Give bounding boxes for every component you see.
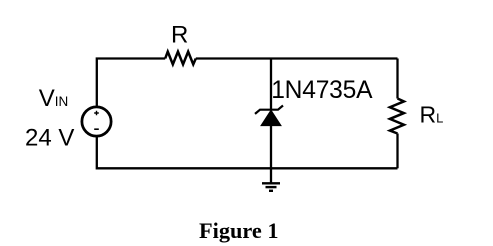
wire right upper segment: [396, 59, 398, 99]
svg-text:Figure 1: Figure 1: [199, 218, 278, 243]
wire middle branch upper: [270, 59, 272, 111]
wire right lower segment: [396, 134, 398, 169]
wire top-right segment: [196, 57, 398, 59]
svg-text:R: R: [171, 22, 188, 49]
zener diode 1N4735A: [255, 106, 283, 126]
wire middle branch lower: [270, 125, 272, 184]
voltage source VIN: [82, 107, 111, 136]
svg-text:24 V: 24 V: [25, 125, 74, 152]
ground: [262, 183, 280, 191]
wire left lower segment: [97, 137, 398, 168]
resistor R: [165, 52, 196, 65]
resistor RL: [390, 99, 404, 134]
svg-text:1N4735A: 1N4735A: [271, 77, 373, 104]
wire top-left segment: [97, 59, 165, 107]
